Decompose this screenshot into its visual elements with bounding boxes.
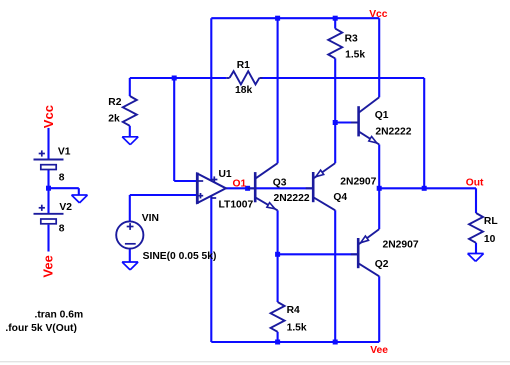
resistor R1: [230, 71, 260, 84]
resistor R3: [328, 29, 342, 59]
wire Out horizontal: [379, 187, 476, 189]
svg-text:Vee: Vee: [370, 345, 388, 356]
ground below R2: [122, 136, 138, 138]
wire feedback left segment R2/R1: [130, 77, 226, 79]
wire R3 bottom lead: [334, 58, 336, 122]
svg-text:1.5k: 1.5k: [345, 50, 365, 61]
resistor R2: [123, 96, 137, 126]
node inverting input junction: [172, 76, 177, 81]
svg-text:Vee: Vee: [40, 255, 55, 277]
node O1 junction: [245, 186, 250, 191]
node Out junction at feedback: [422, 186, 427, 191]
wire VIN to non-inverting input: [130, 194, 198, 196]
wire feedback vertical to Out node: [423, 78, 425, 188]
svg-text:U1: U1: [219, 169, 232, 180]
voltage source VIN: [116, 221, 143, 248]
wire Q2 collector to Vee: [378, 276, 380, 342]
node Vee rail junction at R4: [275, 340, 280, 345]
transistor Q1: [357, 106, 360, 136]
window bottom divider: [0, 361, 510, 363]
node Vcc rail junction at Q3 column: [275, 16, 280, 21]
svg-text:R4: R4: [287, 305, 300, 316]
wire battery V2 bottom to Vee flag: [47, 225, 49, 252]
wire op-amp V+ supply column: [210, 18, 212, 180]
svg-text:2N2222: 2N2222: [274, 193, 310, 204]
wire battery V2 top: [47, 188, 49, 214]
wire Q4 emitter to Q1 base node: [334, 123, 336, 164]
node Q2 base junction: [275, 252, 280, 257]
svg-text:Q4: Q4: [333, 192, 347, 203]
resistor R4: [271, 302, 285, 332]
wire Q3 collector to Vcc: [277, 18, 279, 163]
resistor RL: [469, 213, 483, 243]
wire Q3 emitter to R4: [277, 210, 279, 302]
svg-text:Vcc: Vcc: [41, 105, 56, 128]
wire Vee bottom rail: [211, 341, 379, 343]
wire battery V1 top from Vcc flag: [47, 128, 49, 160]
transistor Q4: [312, 172, 315, 202]
ground below RL: [468, 253, 484, 255]
svg-text:Q2: Q2: [375, 259, 389, 270]
node Vcc rail junction at R3: [333, 16, 338, 21]
wire inverting input vertical: [173, 78, 175, 181]
svg-text:.tran 0.6m: .tran 0.6m: [35, 310, 84, 321]
svg-text:8: 8: [59, 223, 65, 234]
svg-text:RL: RL: [484, 216, 498, 227]
wire inverting input horizontal: [174, 180, 197, 182]
wire feedback right segment R1 to Out: [260, 77, 424, 79]
svg-text:2N2907: 2N2907: [383, 240, 419, 251]
wire R2 bottom lead to ground: [129, 126, 131, 137]
svg-text:2k: 2k: [108, 113, 120, 124]
transistor Q2: [357, 238, 360, 268]
svg-text:18k: 18k: [235, 85, 252, 96]
node battery midpoint junction: [46, 186, 51, 191]
svg-text:8: 8: [59, 173, 65, 184]
ground below VIN: [122, 261, 138, 263]
wire battery V1 bottom: [47, 170, 49, 188]
wire RL top lead: [475, 188, 477, 213]
svg-text:2N2222: 2N2222: [375, 127, 411, 138]
svg-text:VIN: VIN: [142, 213, 159, 224]
node Q1 base junction: [333, 120, 338, 125]
wire Q1 collector to Vcc: [378, 18, 380, 97]
wire Q4 collector to Vee: [334, 210, 336, 342]
wire R4 bottom lead: [277, 332, 279, 342]
svg-text:.four 5k V(Out): .four 5k V(Out): [5, 323, 77, 334]
wire R3 top lead: [334, 18, 336, 28]
battery V1: [34, 159, 64, 161]
wire battery midpoint to ground: [49, 187, 79, 189]
svg-text:V1: V1: [58, 147, 71, 158]
svg-text:10: 10: [484, 234, 496, 245]
svg-text:2N2907: 2N2907: [340, 177, 376, 188]
node Vee rail junction at Q4 collector: [333, 340, 338, 345]
wire op-amp output O1: [226, 187, 313, 189]
svg-text:SINE(0 0.05 5k): SINE(0 0.05 5k): [143, 251, 217, 262]
svg-text:Vcc: Vcc: [369, 9, 388, 20]
wire VIN to ground: [129, 249, 131, 262]
node Out junction at Q1/Q2 emitters: [377, 186, 382, 191]
wire RL bottom lead to ground: [475, 243, 477, 254]
svg-text:Out: Out: [466, 177, 484, 188]
wire R2 top lead: [129, 78, 131, 96]
ground at battery midpoint: [72, 194, 88, 196]
svg-text:Q1: Q1: [375, 110, 389, 121]
svg-text:V2: V2: [59, 202, 72, 213]
svg-text:R3: R3: [345, 33, 358, 44]
svg-text:Q3: Q3: [273, 177, 287, 188]
svg-text:1.5k: 1.5k: [287, 323, 307, 334]
svg-text:LT1007: LT1007: [219, 200, 254, 211]
wire Q2 emitter: [378, 188, 380, 229]
wire op-amp V- supply column: [210, 196, 212, 342]
svg-text:O1: O1: [233, 179, 247, 190]
battery V2: [34, 213, 64, 215]
svg-text:R2: R2: [108, 97, 121, 108]
wire Q2 base: [278, 253, 359, 255]
wire Q1 base: [335, 121, 358, 123]
svg-text:R1: R1: [237, 60, 250, 71]
wire Q1 emitter to Out: [378, 145, 380, 189]
op-amp U1: [197, 174, 226, 204]
transistor Q3: [254, 172, 257, 202]
wire Vcc top rail: [211, 17, 379, 19]
